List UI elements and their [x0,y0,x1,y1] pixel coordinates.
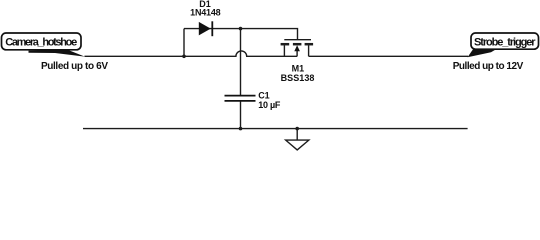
wire bottom net [83,128,468,130]
node junction ground to bottom net [295,127,299,131]
wire capacitor bottom lead [240,101,242,129]
node junction diode branch on main net [182,55,186,59]
wire diode branch vertical [183,29,185,57]
wire capacitor top lead [240,29,242,96]
svg-text:Strobe_trigger: Strobe_trigger [474,36,536,48]
node junction capacitor to bottom net [239,127,243,131]
svg-text:M1: M1 [292,63,305,73]
wire drain to strobe segment [309,55,468,57]
ground symbol [286,140,309,150]
svg-text:Pulled up to 6V: Pulled up to 6V [41,61,108,72]
net label Camera_hotshoe [2,33,85,57]
transistor M1 (N-MOSFET) [281,40,314,57]
net label Strobe_trigger [468,33,539,57]
wire top net (anode-cathode-gate run) [184,29,298,40]
svg-text:10 µF: 10 µF [258,100,281,110]
diode D1 body [199,21,213,36]
capacitor C1 plates [225,96,256,101]
ground lead [296,129,298,141]
wire main net left segment (with hop over capacitor branch) [85,51,298,56]
svg-text:1N4148: 1N4148 [190,7,221,17]
svg-text:Pulled up to 12V: Pulled up to 12V [453,61,524,72]
svg-text:BSS138: BSS138 [281,73,315,83]
node junction top net to capacitor [239,27,243,31]
svg-text:Camera_hotshoe: Camera_hotshoe [5,37,77,49]
